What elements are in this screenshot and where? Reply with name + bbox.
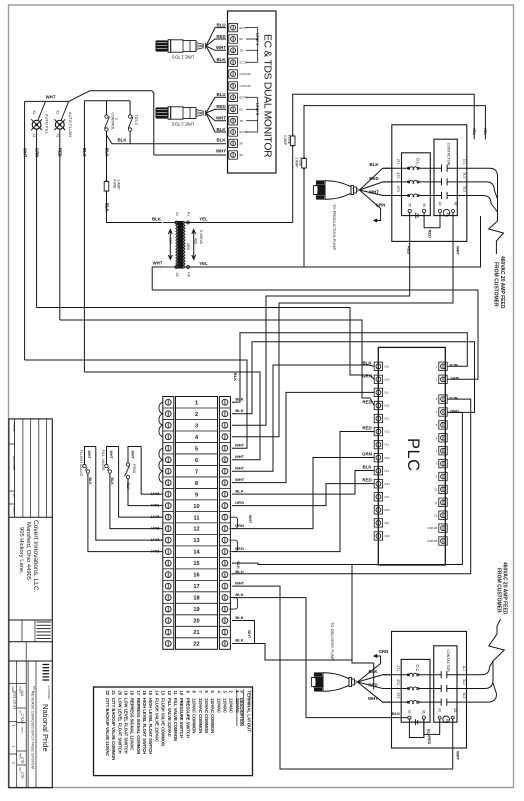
svg-text:110VAC COMMON: 110VAC COMMON xyxy=(210,698,215,733)
svg-text:GRN: GRN xyxy=(376,203,386,208)
svg-text:FILL VALVE: FILL VALVE xyxy=(101,450,106,472)
wires valves to TB1 rows 9-14 xyxy=(88,447,163,555)
wire WHT TB1-17 to K2 coil A1 xyxy=(232,586,461,769)
svg-text:12: 12 xyxy=(193,527,199,533)
wire W8 TB1-7 to PLC I-1 xyxy=(232,365,374,471)
svg-text:BLK: BLK xyxy=(235,408,243,413)
svg-text:CITY BACKUP VALVE 110VAC: CITY BACKUP VALVE 110VAC xyxy=(105,698,110,756)
LINE 2 bracket xyxy=(246,97,260,132)
svg-text:Covert Innovations, LLC.: Covert Innovations, LLC. xyxy=(32,520,39,593)
svg-text:0/15: 0/15 xyxy=(385,508,391,512)
wire BLK K2 internal xyxy=(409,719,430,738)
svg-text:96: 96 xyxy=(422,710,426,714)
svg-text:WHT: WHT xyxy=(235,477,245,482)
svg-text:ORG: ORG xyxy=(186,243,190,251)
wire hairpin FLUSH VALVE xyxy=(85,447,96,465)
svg-text:LINE 2: LINE 2 xyxy=(255,103,260,116)
wire GRN delivery pump drop xyxy=(373,663,375,690)
svg-text:FILL VALVE COMMON: FILL VALVE COMMON xyxy=(173,698,178,741)
wire W11 ORG TB1-10 to PLC I-10 xyxy=(232,484,374,506)
svg-text:BLK: BLK xyxy=(88,478,92,486)
svg-text:22: 22 xyxy=(105,691,110,696)
svg-text:110VAC: 110VAC xyxy=(235,698,240,713)
wire YEL labels K1 feed xyxy=(472,128,487,136)
svg-text:BLK: BLK xyxy=(362,465,372,470)
svg-text:0/10: 0/10 xyxy=(385,377,391,381)
wire YEL transformer H1 to fuse F1 xyxy=(189,216,292,222)
svg-text:21: 21 xyxy=(193,630,199,636)
wire 96 to A2 K1 xyxy=(424,213,440,239)
svg-text:14: 14 xyxy=(193,550,200,556)
svg-text:BLK: BLK xyxy=(151,549,159,554)
svg-text:110VAC COMMON: 110VAC COMMON xyxy=(204,698,209,733)
wire 96 to A2 K2 xyxy=(424,719,440,745)
svg-text:7: 7 xyxy=(195,469,198,475)
svg-text:BLK: BLK xyxy=(235,396,243,401)
svg-text:WHT: WHT xyxy=(22,148,27,158)
svg-text:RED: RED xyxy=(235,546,244,551)
service feed curves K2 xyxy=(467,661,497,702)
svg-text:BLK: BLK xyxy=(233,373,238,381)
svg-text:PRESSURE SWITCH: PRESSURE SWITCH xyxy=(185,698,190,738)
svg-text:WHT: WHT xyxy=(153,261,163,266)
contactor K K1 xyxy=(434,139,457,215)
svg-text:17: 17 xyxy=(193,584,199,590)
switch S2 AUTO FLUSH xyxy=(54,110,72,138)
overload relay OL K2 xyxy=(401,659,430,722)
wire BLU PLC out3 to TB1-16 xyxy=(232,399,471,574)
PLC right terminals xyxy=(427,362,447,545)
svg-text:WHT: WHT xyxy=(87,451,91,460)
svg-text:O.L.: O.L. xyxy=(415,158,420,166)
sensor connector LINE 2 TDS xyxy=(156,107,206,127)
svg-text:I/14: I/14 xyxy=(385,469,390,473)
svg-text:REVISION: REVISION xyxy=(12,456,16,470)
svg-text:X1: X1 xyxy=(32,134,36,138)
customer stamp xyxy=(41,665,50,752)
svg-text:BLK: BLK xyxy=(216,138,226,143)
svg-text:CTR: CTR xyxy=(20,757,24,764)
svg-text:RED: RED xyxy=(216,34,225,39)
svg-text:PLC: PLC xyxy=(404,438,422,472)
svg-text:TERMINAL LAYOUT: TERMINAL LAYOUT xyxy=(247,691,252,733)
terminal strip TB1 xyxy=(163,397,231,650)
wire YEL transformer H4 bus xyxy=(189,216,480,267)
svg-text:BLK: BLK xyxy=(151,526,159,531)
svg-text:BY: BY xyxy=(12,494,16,498)
svg-text:COM A/B: COM A/B xyxy=(427,540,437,543)
svg-text:17: 17 xyxy=(136,691,141,696)
svg-text:WHT: WHT xyxy=(456,751,461,761)
approval stamp cells xyxy=(9,620,52,661)
svg-text:13: 13 xyxy=(193,538,199,544)
wire RED rail xyxy=(58,129,63,320)
svg-text:0/14: 0/14 xyxy=(385,482,391,486)
svg-text:WHT: WHT xyxy=(109,451,113,460)
PLC left terminals xyxy=(374,362,390,540)
svg-text:LOW LEVEL FLOAT SWITCH: LOW LEVEL FLOAT SWITCH xyxy=(123,698,128,754)
svg-text:905 Hickory Lane,: 905 Hickory Lane, xyxy=(18,527,24,574)
LINE 1 bracket xyxy=(246,28,260,63)
EC & TDS dual monitor U1 xyxy=(228,11,277,173)
fuse F2 2 AMP xyxy=(295,157,307,170)
PLC controller U2 xyxy=(378,347,445,565)
svg-text:M: M xyxy=(445,719,449,722)
svg-text:110VAC: 110VAC xyxy=(223,698,228,713)
svg-text:WHT: WHT xyxy=(150,538,160,543)
wire hairpin PSW xyxy=(128,447,141,463)
coil A1 A2 K1 xyxy=(438,202,458,216)
OL aux terminals 95 96 K2 xyxy=(407,710,426,725)
svg-text:GRN: GRN xyxy=(362,452,372,457)
svg-text:20: 20 xyxy=(117,691,122,696)
svg-text:FROM CUSTOMER: FROM CUSTOMER xyxy=(495,568,501,613)
svg-text:PRESSURE SWITCH: PRESSURE SWITCH xyxy=(179,698,184,738)
svg-text:2 AMP: 2 AMP xyxy=(295,158,299,169)
sensor 2 wires to monitor xyxy=(206,92,226,132)
svg-text:YEL: YEL xyxy=(483,128,487,136)
terminal layout legend xyxy=(94,687,253,776)
svg-text:1: 1 xyxy=(12,725,16,727)
svg-text:WHT: WHT xyxy=(368,696,378,701)
svg-text:I/11: I/11 xyxy=(385,391,390,395)
svg-text:15: 15 xyxy=(193,561,199,567)
svg-text:0/16: 0/16 xyxy=(385,534,391,538)
wire BLK rail 1 xyxy=(82,101,87,372)
svg-text:FLUSH VALVE: FLUSH VALVE xyxy=(79,450,84,477)
svg-text:X1: X1 xyxy=(175,212,179,216)
svg-text:0/12: 0/12 xyxy=(385,430,391,434)
svg-text:18: 18 xyxy=(193,596,199,602)
svg-text:GRN: GRN xyxy=(34,148,39,157)
svg-text:CUSTOMER:: CUSTOMER: xyxy=(47,686,50,701)
svg-text:RED: RED xyxy=(362,426,371,431)
wire hairpin FILL VALVE xyxy=(107,447,119,465)
wire W13 RED TB1-14 to PLC I-6 xyxy=(232,432,374,552)
wire WHT rail down-left xyxy=(22,101,27,360)
svg-text:20: 20 xyxy=(193,619,199,625)
fuse F1 2 AMP xyxy=(283,135,295,148)
wire W12 GRN TB1-12 to PLC I-8 xyxy=(232,458,374,529)
svg-text:16: 16 xyxy=(193,573,199,579)
svg-text:3L2: 3L2 xyxy=(462,172,466,178)
svg-text:PSW: PSW xyxy=(132,464,137,473)
TB1 right jumpers rows 11-12 13-14 18-19 xyxy=(230,517,238,609)
PLC input wire labels xyxy=(362,360,372,482)
wire W4 BLK TB1-1 to PLC out 1 xyxy=(232,333,467,403)
svg-text:GRN: GRN xyxy=(379,649,389,654)
phase wire 4T2-3L2 K1 xyxy=(383,172,467,185)
svg-text:COM A/B: COM A/B xyxy=(427,527,437,530)
svg-text:WHT: WHT xyxy=(150,492,160,497)
wire BLK rail 2 with contacts xyxy=(104,131,109,180)
svg-text:5: 5 xyxy=(195,446,198,452)
svg-text:TB: TB xyxy=(240,49,244,53)
svg-text:TB: TB xyxy=(240,119,244,123)
motor connector P2 delivery pump xyxy=(311,622,357,692)
svg-text:FLUSH VALVE 110VAC: FLUSH VALVE 110VAC xyxy=(154,698,159,742)
svg-text:TDS 3: TDS 3 xyxy=(134,115,138,125)
svg-text:BLK: BLK xyxy=(152,216,162,221)
wire W5 BLK TB1-2 to PLC out 4 xyxy=(232,342,475,414)
wire W2 GRN to PLC I-2 xyxy=(37,308,375,380)
svg-text:16: 16 xyxy=(142,691,147,696)
svg-text:I/15: I/15 xyxy=(385,495,390,499)
svg-text:RED: RED xyxy=(427,230,431,238)
svg-text:FROM CUSTOMER: FROM CUSTOMER xyxy=(493,262,499,307)
svg-text:M: M xyxy=(446,213,450,216)
svg-text:BLK: BLK xyxy=(449,363,457,368)
svg-text:TO PRODUCTION PUMP: TO PRODUCTION PUMP xyxy=(332,204,337,250)
svg-text:SHEET: SHEET xyxy=(21,727,23,735)
wire BLK to monitor terminal 11 xyxy=(107,131,227,144)
wire BLK TB1-18 to K2 OL 95 xyxy=(232,598,408,718)
svg-text:RED: RED xyxy=(407,246,412,255)
svg-text:I/16: I/16 xyxy=(385,521,390,525)
svg-text:AUTO FLUSH: AUTO FLUSH xyxy=(68,112,73,137)
svg-text:BLK: BLK xyxy=(427,729,431,737)
PLC output wire labels xyxy=(449,363,459,414)
svg-text:C RAY: C RAY xyxy=(20,714,24,725)
svg-text:CONTACTOR: CONTACTOR xyxy=(446,143,450,166)
svg-text:WHT: WHT xyxy=(456,246,461,256)
svg-text:RED: RED xyxy=(362,399,371,404)
svg-text:WHT: WHT xyxy=(216,45,226,50)
contactor K K2 xyxy=(434,646,457,722)
svg-text:96: 96 xyxy=(422,203,426,207)
switch S1 AUTO FILL xyxy=(31,110,49,138)
svg-text:X2: X2 xyxy=(175,272,179,276)
svg-text:RED: RED xyxy=(369,176,378,181)
svg-text:WHT: WHT xyxy=(369,190,379,195)
svg-text:RED: RED xyxy=(368,683,377,688)
svg-text:0.10KVA: 0.10KVA xyxy=(199,230,203,245)
svg-text:BLK: BLK xyxy=(369,162,379,167)
contactor assembly K1 outer box xyxy=(392,125,467,242)
svg-text:BLU: BLU xyxy=(449,396,457,401)
svg-text:460: 460 xyxy=(194,238,198,244)
svg-text:RED: RED xyxy=(58,148,63,157)
svg-text:BLK: BLK xyxy=(235,592,243,597)
svg-text:BLK: BLK xyxy=(216,127,226,132)
svg-text:RED: RED xyxy=(216,104,225,109)
svg-text:CONTACTOR: CONTACTOR xyxy=(446,649,450,672)
svg-text:LINE 1 TDS: LINE 1 TDS xyxy=(172,55,194,60)
drawing title text xyxy=(31,686,36,769)
svg-text:4T2: 4T2 xyxy=(396,679,400,685)
svg-text:I/12: I/12 xyxy=(385,417,390,421)
svg-text:LOW LEVEL FLOAT SWITCH: LOW LEVEL FLOAT SWITCH xyxy=(117,698,122,754)
service feed curves K1 xyxy=(467,168,498,221)
svg-text:5L3: 5L3 xyxy=(462,693,466,699)
svg-text:WHT: WHT xyxy=(235,465,245,470)
label 460VAC 20 AMP FEED FROM CUSTOMER top xyxy=(493,256,505,309)
svg-text:21: 21 xyxy=(111,691,116,696)
svg-text:H4: H4 xyxy=(186,272,190,276)
wire W7 BLK rail to TB1-6 xyxy=(84,372,260,460)
wire W3 RED to PLC I-4 xyxy=(60,320,374,405)
svg-text:CONTROL: CONTROL xyxy=(111,113,115,131)
svg-text:1: 1 xyxy=(195,400,198,406)
svg-text:BLK: BLK xyxy=(216,57,226,62)
sensor 1 wires to monitor xyxy=(206,22,226,62)
svg-text:BLK: BLK xyxy=(235,638,243,643)
OL aux terminals 95 96 K1 xyxy=(407,203,426,218)
TB1 jumpers rows 5-8 xyxy=(159,448,163,482)
svg-text:3: 3 xyxy=(195,423,198,429)
svg-text:GND: GND xyxy=(450,409,459,414)
svg-text:4T2: 4T2 xyxy=(396,172,400,178)
svg-text:ORG: ORG xyxy=(235,500,244,505)
svg-text:LINE 2 TDS: LINE 2 TDS xyxy=(172,122,194,127)
svg-text:460VAC 20 AMP FEED: 460VAC 20 AMP FEED xyxy=(499,256,505,309)
svg-text:BLK: BLK xyxy=(235,488,243,493)
phase wire 4T2-3L2 K2 xyxy=(383,679,467,692)
svg-text:BLK: BLK xyxy=(236,561,240,569)
title block xyxy=(9,419,52,788)
sensor connector LINE 1 TDS xyxy=(156,40,206,60)
svg-text:SP: SP xyxy=(240,153,244,157)
svg-text:DATE: DATE xyxy=(12,424,16,432)
svg-text:12: 12 xyxy=(167,691,172,696)
wires connector P2 to contactor K2 xyxy=(358,649,392,702)
overload relay OL K1 xyxy=(402,153,431,216)
svg-text:REVERSE OSMOSIS SPOT FREE SYST: REVERSE OSMOSIS SPOT FREE SYSTEM xyxy=(31,691,36,769)
svg-text:2T1: 2T1 xyxy=(396,159,400,165)
svg-text:10: 10 xyxy=(179,691,184,696)
svg-text:11: 11 xyxy=(194,515,200,521)
svg-text:WHT: WHT xyxy=(130,451,134,460)
svg-text:BLK: BLK xyxy=(110,478,114,486)
svg-text:19: 19 xyxy=(123,691,128,696)
wires TB1 20-22 jumper loop xyxy=(232,621,352,660)
svg-text:FLUSH VALVE COMMON: FLUSH VALVE COMMON xyxy=(161,698,166,746)
svg-text:BLK: BLK xyxy=(104,148,109,157)
svg-text:0/13: 0/13 xyxy=(385,456,391,460)
svg-text:COM AIR: COM AIR xyxy=(240,72,251,76)
svg-text:BLU: BLU xyxy=(235,569,243,574)
revision table xyxy=(9,419,52,517)
solenoid FILL VALVE xyxy=(101,450,114,486)
svg-text:2T1: 2T1 xyxy=(396,665,400,671)
svg-text:1: 1 xyxy=(12,762,16,764)
svg-text:WHT: WHT xyxy=(216,116,226,121)
svg-text:National Pride: National Pride xyxy=(41,704,50,752)
svg-text:3L2: 3L2 xyxy=(462,679,466,685)
wire W6 WHT rail to TB1-5 xyxy=(25,360,247,448)
svg-text:BLK: BLK xyxy=(82,148,87,157)
svg-text:CK'D: CK'D xyxy=(12,507,16,515)
svg-text:WHT: WHT xyxy=(235,454,245,459)
svg-text:460VAC 20 AMP FEED: 460VAC 20 AMP FEED xyxy=(502,562,508,615)
svg-text:95: 95 xyxy=(407,203,411,207)
svg-text:RED: RED xyxy=(362,478,371,483)
contact CONTROL 2 xyxy=(105,113,119,132)
svg-text:X1: X1 xyxy=(55,134,59,138)
pressure switch PSW xyxy=(125,451,137,491)
svg-text:2: 2 xyxy=(195,412,198,418)
svg-text:110VAC: 110VAC xyxy=(216,698,221,713)
svg-text:BLU: BLU xyxy=(216,92,225,97)
svg-text:WHT: WHT xyxy=(248,515,252,524)
svg-text:HIGH LEVEL FLOAT SWITCH: HIGH LEVEL FLOAT SWITCH xyxy=(148,698,153,754)
svg-text:2: 2 xyxy=(115,118,119,120)
svg-text:EC: EC xyxy=(240,108,244,112)
TB1 jumpers rows 1-4 xyxy=(159,402,163,436)
wire WHT K1 coil to terminal 4 xyxy=(232,212,461,437)
wire BLK top bus xyxy=(84,101,130,115)
svg-text:N/A: N/A xyxy=(20,691,24,698)
wire WHT bus to switches xyxy=(25,91,154,155)
svg-text:Mansfield, Ohio 44905: Mansfield, Ohio 44905 xyxy=(25,522,31,580)
svg-text:95: 95 xyxy=(407,710,411,714)
company block xyxy=(9,520,52,620)
svg-text:O.L.: O.L. xyxy=(415,664,420,672)
svg-text:6T3: 6T3 xyxy=(396,693,400,699)
svg-text:10: 10 xyxy=(193,504,199,510)
svg-text:0/11: 0/11 xyxy=(385,404,390,408)
svg-text:A2: A2 xyxy=(438,202,442,206)
svg-text:RED: RED xyxy=(427,736,431,744)
svg-text:H1: H1 xyxy=(186,212,190,216)
title area dividers xyxy=(17,661,36,788)
wires connector P1 to contactor K1 xyxy=(360,162,392,222)
wire RED K1 to terminal 3 xyxy=(232,213,412,425)
svg-text:110VAC COMMON: 110VAC COMMON xyxy=(198,698,203,733)
svg-text:X2: X2 xyxy=(55,110,59,114)
wire W1 WHT transformer to PLC out 2 xyxy=(152,290,478,379)
svg-text:GRN: GRN xyxy=(235,523,244,528)
svg-text:REPRESS SIGNAL 110VAC: REPRESS SIGNAL 110VAC xyxy=(130,698,135,750)
svg-text:8: 8 xyxy=(195,481,198,487)
wire BLK fuse to transformer X1 xyxy=(104,193,162,223)
svg-text:REPRESS SIGNAL COMMON: REPRESS SIGNAL COMMON xyxy=(136,698,141,754)
svg-text:WHT: WHT xyxy=(150,515,160,520)
wire GND PLC out4 to TB1-15 xyxy=(232,412,462,663)
svg-text:A1: A1 xyxy=(453,202,457,206)
transformer T1 460-120V xyxy=(163,212,203,277)
svg-text:YEL: YEL xyxy=(472,128,476,136)
svg-text:WHT: WHT xyxy=(247,630,251,639)
svg-text:A1: A1 xyxy=(453,708,457,712)
wire fuse F1 feed xyxy=(293,94,475,222)
contactor assembly K2 outer box xyxy=(392,631,467,748)
svg-text:AUTO FILL: AUTO FILL xyxy=(45,114,50,135)
svg-text:14: 14 xyxy=(154,691,159,696)
line break symbol bottom feed xyxy=(489,619,505,661)
svg-text:EC: EC xyxy=(240,37,244,41)
phase wire 2T1-1L1 K1 xyxy=(383,159,467,172)
svg-text:CTR: CTR xyxy=(20,772,24,779)
wire WHT to monitor terminal 12 xyxy=(154,149,227,155)
svg-text:WHT: WHT xyxy=(46,95,56,100)
svg-text:120: 120 xyxy=(168,237,172,243)
wire GRN rail xyxy=(34,129,39,307)
svg-text:I/10: I/10 xyxy=(385,364,390,368)
svg-text:6T3: 6T3 xyxy=(396,186,400,192)
svg-text:110VAC: 110VAC xyxy=(229,698,234,713)
svg-text:COM AIR: COM AIR xyxy=(240,84,251,88)
wire W9 TB1-8 to PLC I-3 xyxy=(232,392,374,482)
phase wire 6T3-5L3 K1 xyxy=(383,186,467,199)
svg-text:22: 22 xyxy=(193,642,199,648)
svg-text:CITY BACKUP VALVE COMMON: CITY BACKUP VALVE COMMON xyxy=(111,698,116,760)
svg-text:5L3: 5L3 xyxy=(462,186,466,192)
svg-text:I/13: I/13 xyxy=(385,443,390,447)
fuse F3 2 AMP xyxy=(104,180,120,193)
svg-text:BLK: BLK xyxy=(392,711,400,716)
svg-text:HIGH LEVEL FLOAT SWITCH: HIGH LEVEL FLOAT SWITCH xyxy=(142,698,147,754)
